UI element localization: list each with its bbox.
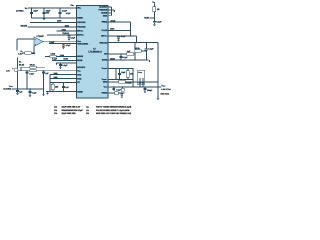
svg-text:3633 TA01: 3633 TA01 (161, 92, 170, 95)
svg-text:45.3k: 45.3k (135, 47, 141, 50)
svg-text:VOUT: VOUT (161, 85, 165, 88)
svg-text:RUN1: RUN1 (77, 59, 83, 62)
svg-text:SGND: SGND (77, 90, 83, 93)
svg-text:22µF: 22µF (121, 71, 126, 74)
svg-text:10k: 10k (32, 52, 36, 55)
svg-text:ITH2: ITH2 (77, 77, 81, 80)
svg-text:4.7µF: 4.7µF (66, 44, 72, 47)
svg-text:0.6V: 0.6V (6, 69, 10, 72)
svg-text:0.1µF: 0.1µF (116, 89, 121, 92)
svg-text:15k: 15k (55, 86, 59, 89)
svg-text:0805 X5R 6.3V C100 K8U GRM21 (: 0805 X5R 6.3V C100 K8U GRM21 (×4) (96, 112, 131, 115)
svg-text:LTC3633A-2: LTC3633A-2 (88, 50, 102, 53)
svg-text:(17V/5V): (17V/5V) (16, 9, 24, 12)
svg-text:PHMODE: PHMODE (99, 9, 108, 12)
svg-text:0.1µF: 0.1µF (156, 21, 162, 24)
svg-text:C1:: C1: (54, 106, 58, 109)
svg-text:C8:: C8: (86, 112, 90, 115)
svg-text:MODE: MODE (21, 25, 28, 28)
svg-text:1µF: 1µF (45, 72, 49, 75)
svg-text:(1.5V/5A): (1.5V/5A) (3, 87, 11, 90)
svg-text:0.1µF: 0.1µF (52, 58, 58, 61)
svg-text:CLKOUT: CLKOUT (99, 6, 108, 9)
svg-text:TRACK: TRACK (62, 32, 69, 35)
svg-text:100µF: 100µF (147, 89, 153, 92)
svg-text:BOOST1: BOOST1 (77, 66, 86, 69)
svg-text:1µF: 1µF (19, 90, 23, 93)
svg-text:10µF: 10µF (33, 10, 38, 13)
svg-text:PLLIN: PLLIN (102, 29, 108, 32)
svg-text:4.7µF: 4.7µF (121, 35, 127, 38)
svg-text:1M: 1M (157, 8, 160, 11)
svg-text:SGND: SGND (77, 17, 83, 20)
svg-text:L1:: L1: (86, 106, 89, 109)
svg-text:GRM188R60J106 10µF: GRM188R60J106 10µF (62, 109, 84, 112)
svg-text:RUN: RUN (144, 17, 149, 20)
svg-text:47µF 0805 X5R 6.3V: 47µF 0805 X5R 6.3V (62, 106, 81, 109)
svg-text:VA: VA (20, 50, 22, 53)
svg-text:TRACK/SS1: TRACK/SS1 (77, 42, 89, 45)
svg-text:PGOOD1: PGOOD1 (77, 21, 86, 24)
svg-text:PULSE PA0513.112NLT 1.1µH ±20%: PULSE PA0513.112NLT 1.1µH ±20% (96, 109, 130, 112)
svg-text:MODE: MODE (101, 12, 108, 15)
svg-text:RUN: RUN (64, 58, 69, 61)
svg-text:1.5V: 1.5V (18, 53, 23, 56)
svg-text:RUN: RUN (110, 57, 115, 60)
svg-text:0.1µF: 0.1µF (32, 92, 38, 95)
svg-text:22µF 0603 X5R: 22µF 0603 X5R (62, 112, 77, 115)
svg-text:1.5V AT 6A: 1.5V AT 6A (161, 88, 171, 91)
svg-text:56.2k: 56.2k (19, 63, 25, 66)
svg-text:PGND: PGND (102, 92, 108, 95)
svg-text:SW2: SW2 (103, 81, 107, 84)
svg-text:TRACK2: TRACK2 (99, 41, 107, 44)
svg-text:LT1997: LT1997 (37, 35, 45, 38)
svg-text:0.1µF: 0.1µF (62, 10, 68, 13)
svg-text:C2:: C2: (54, 109, 58, 112)
svg-text:VIN: VIN (152, 1, 155, 4)
svg-text:0.1µF: 0.1µF (148, 48, 154, 51)
svg-text:0.1µF: 0.1µF (62, 64, 68, 67)
svg-text:L2:: L2: (86, 109, 89, 112)
svg-text:1nF: 1nF (65, 86, 69, 89)
svg-text:VIN: VIN (25, 7, 28, 10)
svg-text:TAIYO YUDEN NR3015T2R2M (2.2µH: TAIYO YUDEN NR3015T2R2M (2.2µH) (96, 106, 132, 109)
svg-text:PGOOD2: PGOOD2 (77, 26, 85, 29)
svg-text:PVIN: PVIN (70, 4, 74, 7)
svg-text:RUN2: RUN2 (102, 59, 107, 62)
svg-text:0.1µF: 0.1µF (123, 56, 129, 59)
svg-text:COUT: COUT (138, 71, 142, 74)
svg-text:0.47µH: 0.47µH (126, 82, 133, 85)
svg-text:0.1µF: 0.1µF (71, 36, 76, 39)
svg-text:4.7µF: 4.7µF (29, 72, 35, 75)
svg-text:FREQ: FREQ (102, 21, 108, 24)
svg-text:4.7µF: 4.7µF (66, 12, 72, 15)
svg-text:C3:: C3: (54, 112, 58, 115)
svg-text:RA: RA (19, 61, 21, 64)
svg-text:MODE: MODE (77, 55, 84, 58)
